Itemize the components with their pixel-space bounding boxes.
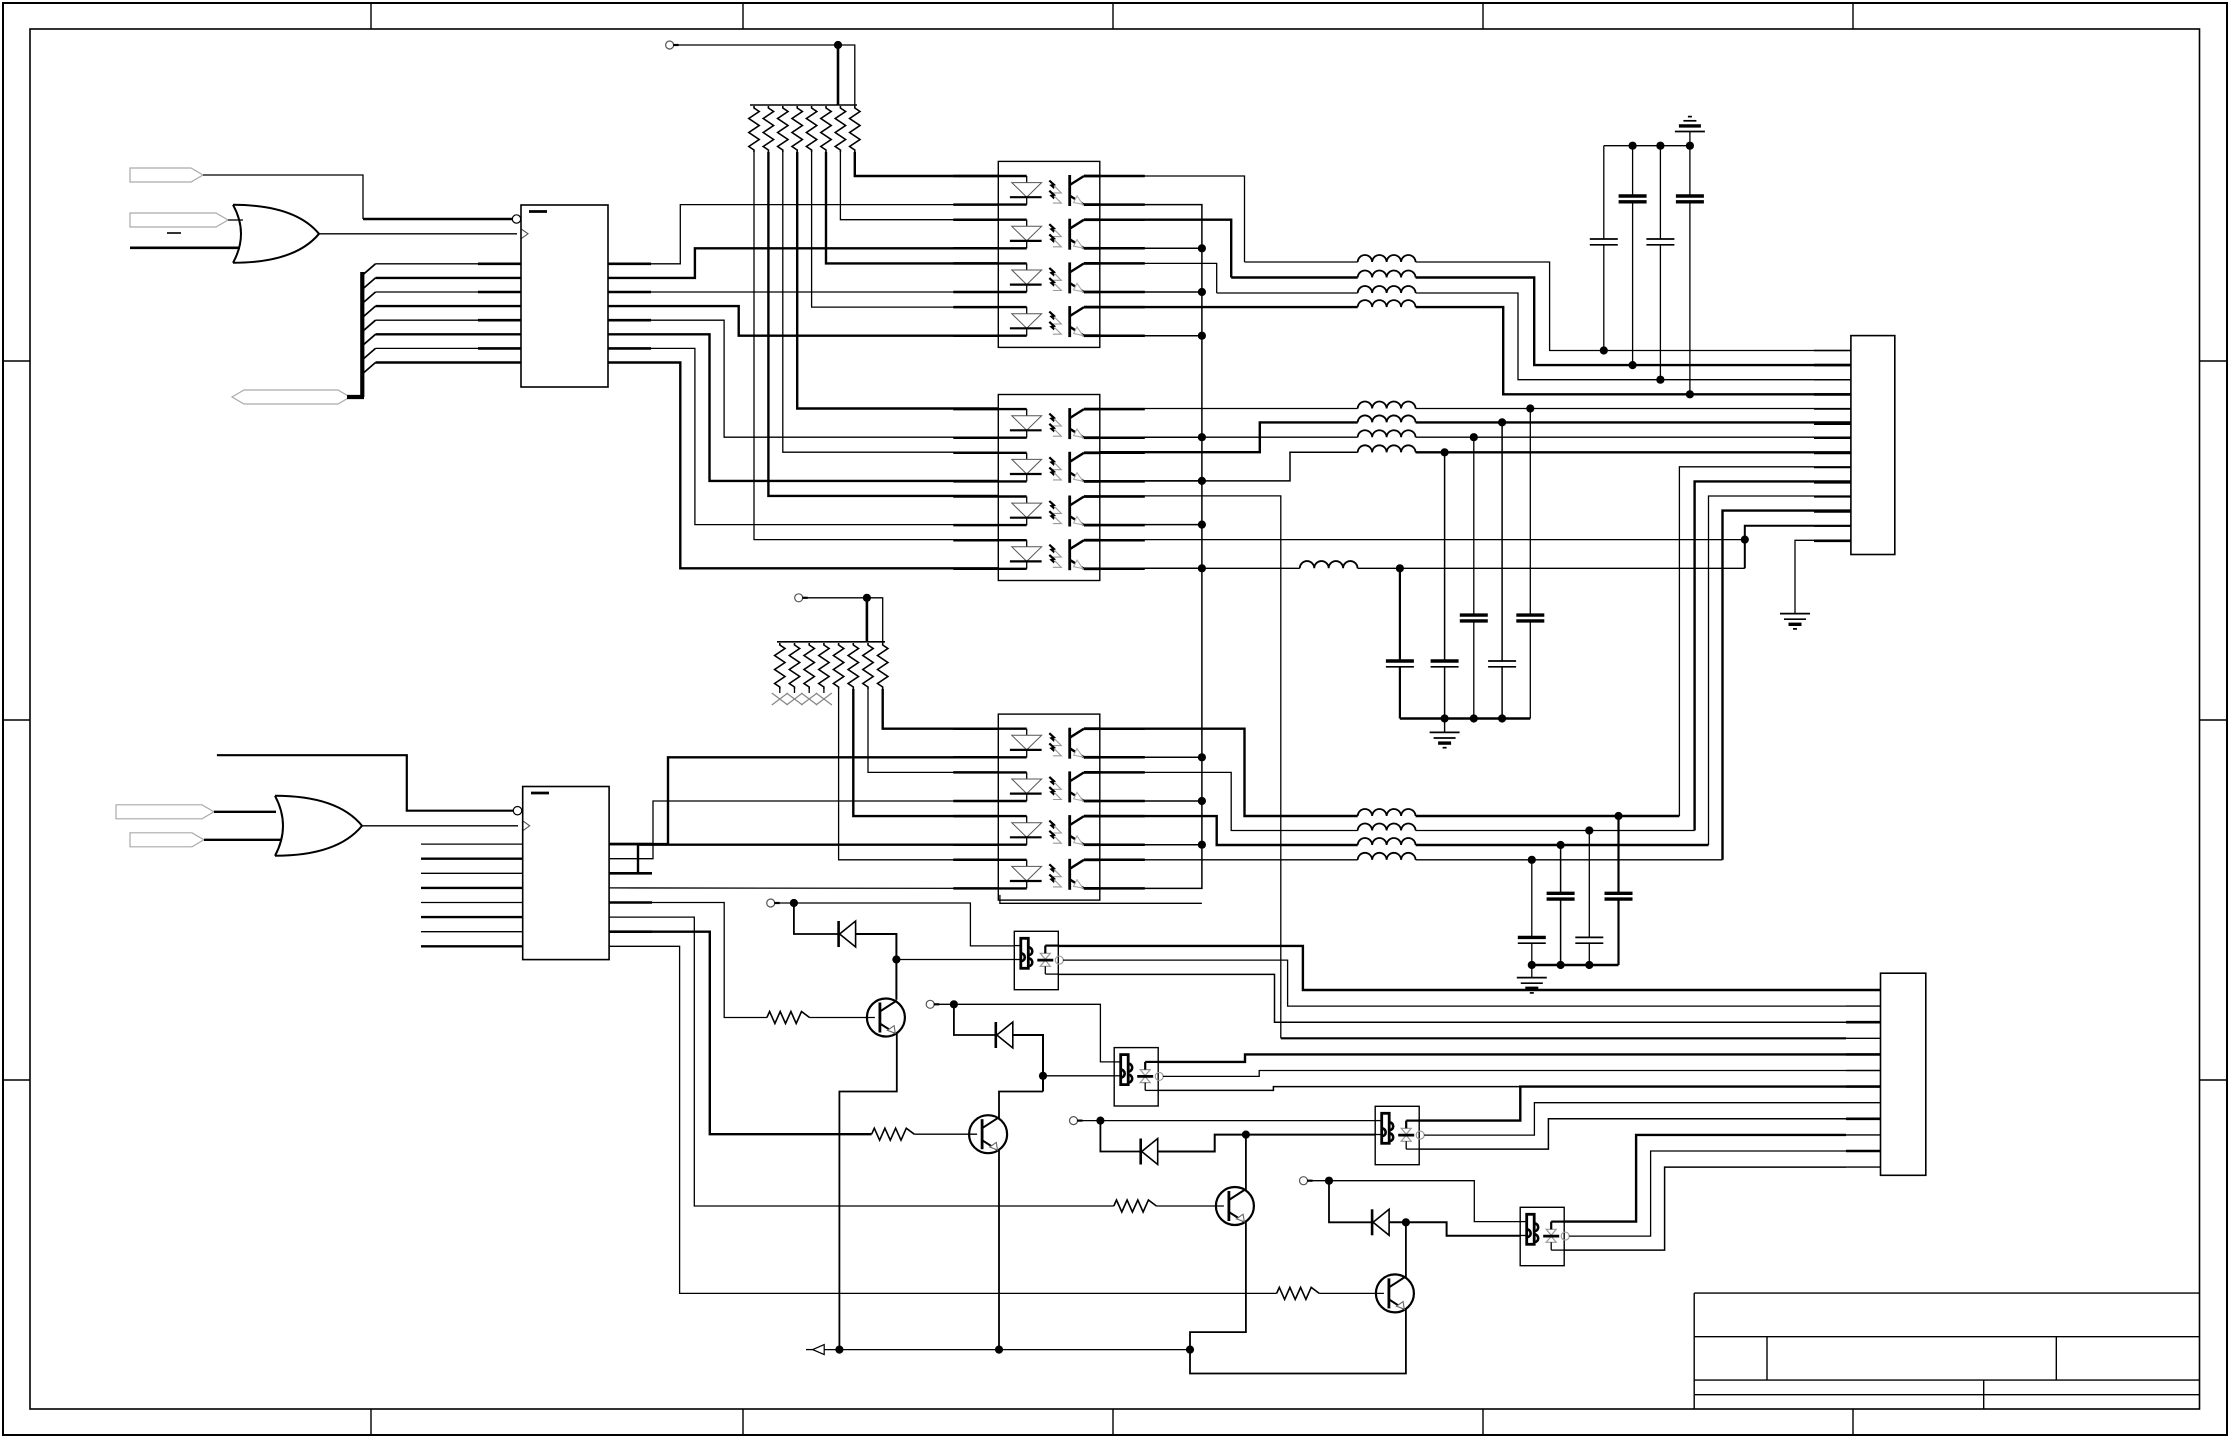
wire R4 to Q2 [914,1133,977,1135]
wire D4 to M4 [1389,1222,1520,1236]
U3 unit3 phototransistor [1068,496,1071,527]
resistor R26 [848,643,858,689]
RN1 common rail [750,104,857,106]
bus tap [363,306,376,317]
junction rail Q1 [835,1346,843,1354]
stub U4 input [421,945,523,947]
wire U3c2 to L6 [1100,422,1358,452]
inductor L13 [1358,853,1416,860]
junction rail Q2 [995,1346,1003,1354]
wire IN3 to OR1 [130,247,240,250]
J2 pin 4 stub [1846,1037,1881,1039]
wire RN1 to opto anode [754,152,998,540]
U2 unit2 LED [998,218,1026,220]
stub U4 input [421,872,523,874]
wire to inductor [1245,261,1358,263]
wire L to J1 [1416,451,1851,453]
wire RN1 to opto anode [783,152,999,452]
border tick right [2200,719,2228,721]
U3 unit4 LED [998,539,1026,541]
wire M4b to J2 pin11 [1569,1151,1846,1236]
wire U2c1 [1100,176,1245,262]
wire RN2 to opto anode [839,689,999,860]
wire U4o8 to R6 base net [609,946,1277,1293]
isolation module M1 [1014,931,1058,989]
border tick bottom [1852,1409,1854,1435]
inductor L6 [1358,415,1416,422]
no-connect X [772,693,788,705]
wire emitter to bus [1100,436,1202,438]
net flag BUS [232,390,350,404]
capacitor C3 [1659,146,1661,239]
resistor R15 [806,106,816,152]
wire bus to U1 pin [376,277,522,279]
border tick right [2200,360,2228,362]
isolation module M4 [1520,1207,1564,1265]
capacitor C5 [1399,568,1401,661]
U3 unit3 pin stubs [953,495,998,498]
J1 pin 2 stub [1814,364,1851,367]
junction N3 [1242,1131,1250,1139]
wire L group3 right [1416,815,1680,817]
junction K4 [1325,1177,1333,1185]
single inductor L9 [1202,567,1300,569]
wire U1 out to opto cathode [608,248,998,278]
J1 pin 7 stub [1814,437,1851,439]
capacitor C8 [1501,422,1503,661]
inductor L4 [1358,300,1416,307]
wire Q3 emitter [1190,1222,1246,1350]
U1 clock mark [521,229,528,239]
wire L9 to J1 pin13 [1745,526,1851,569]
border tick bottom [370,1409,372,1435]
U5 unit2 light arrows [1049,777,1057,787]
capacitor C12 [1588,831,1590,938]
cap rail B [1532,964,1619,967]
border tick left [3,1079,30,1081]
U2 unit3 phototransistor [1068,262,1071,293]
U1 enable bubble [512,215,520,223]
U3 unit2 phototransistor [1068,452,1071,483]
U4 pin stub [609,901,652,904]
junction cap [1557,841,1565,849]
junction cap [1629,361,1637,369]
terminal K4 [1300,1177,1308,1185]
diode D2 [994,1022,997,1048]
wire J1 pin down to L group3 [1709,496,1851,845]
stub U4 input [421,931,523,933]
wire bus to U1 pin [376,361,522,363]
isolation module M2 [1114,1048,1158,1106]
U1 pin stub [478,291,521,294]
wire U1 out to opto cathode [608,348,998,524]
junction VCC2 [863,594,871,602]
cap ground rail [1604,145,1690,147]
wire RN1 to opto anode [840,152,998,220]
junction bus [1198,332,1206,340]
optocoupler block U3 [998,395,1100,581]
wire IN1 to U1 enable [203,175,363,219]
terminal K2 [926,1000,934,1008]
wire L to J1 [1416,293,1851,380]
border tick top [1852,3,1854,29]
U4 pin stub [609,843,652,846]
capacitor C1 [1603,146,1605,239]
cap rail A [1400,717,1530,719]
wire emitter to bus [1100,844,1202,846]
wire VCC2 branch [867,598,883,643]
junction bus [1198,244,1206,252]
junction cap [1600,346,1608,354]
junction rail gnd [1528,961,1536,969]
wire gnd stub [1689,132,1691,146]
wire K4 to M4 [1312,1181,1520,1222]
RN2 common rail [777,641,885,643]
wire U5c4 to L13 [1100,859,1358,861]
wire N2 to Q2 collector [999,1092,1043,1120]
terminal K1 [767,899,775,907]
U2 unit1 light arrows [1049,181,1057,191]
U2 unit4 phototransistor [1068,306,1071,337]
inductor L3 [1358,286,1416,293]
wire emitter to bus [1100,756,1202,758]
input bus [360,272,364,397]
U5 unit3 phototransistor [1068,815,1071,846]
wire M3b to J2 pin8 [1424,1103,1846,1135]
wire to inductor [1100,306,1358,308]
resistor R21 [775,643,785,689]
no-connect X [801,693,817,705]
no-connect X [816,693,832,705]
wire M3a to J2 pin7 [1419,1087,1846,1121]
wire U1 out to opto cathode [608,320,998,437]
wire J1 pin down to L group3 [1679,467,1851,816]
U2 unit1 phototransistor [1068,175,1071,206]
wire L to J1 [1416,262,1851,351]
junction cap [1498,418,1506,426]
border tick left [3,719,30,721]
isolation module M3 [1375,1106,1419,1164]
IC U1 [521,205,608,387]
capacitor C10 [1531,860,1533,938]
bus tap [363,320,376,331]
J1 pin 12 stub [1814,510,1851,513]
junction N4 [1402,1218,1410,1226]
resistor R22 [789,643,799,689]
wire gnd stub [1444,719,1446,733]
J1 pin 10 stub [1814,481,1851,484]
resistor R18 [850,106,860,152]
border tick bottom [1482,1409,1484,1435]
wire L to J1 [1416,421,1851,423]
J1 pin 8 stub [1814,452,1851,455]
wire enable to U4 [217,755,513,811]
U3 unit1 light arrows [1049,414,1057,424]
stub U4 input [421,902,523,904]
wire U5c2 to L11 [1100,772,1358,830]
U1 pin stub [478,347,521,350]
bus tap [363,348,376,359]
wire D3 to M3 [1158,1135,1376,1152]
U2 unit4 LED [998,306,1026,308]
J2 pin 12 stub [1846,1166,1881,1168]
wire Q2 emitter [998,1150,1000,1349]
title block [1694,1292,2199,1294]
wire M1c to J2 pin3 [1058,974,1846,1022]
junction VCC1 [834,41,842,49]
transistor Q1 [867,999,905,1037]
junction bus [1198,477,1206,485]
resistor R11 [749,106,759,152]
wire IN2 to OR1 [228,219,243,221]
junction bus [1198,288,1206,296]
U2 unit1 pin stubs [953,175,998,178]
wire U4o4 to U5 [609,887,998,890]
wire bus to U1 pin [376,319,522,321]
wire N3 to Q3 collector [1245,1135,1247,1191]
ground reference arrow [813,1345,825,1355]
wire K2 to D2 [954,1004,996,1035]
wire VCC2 drop [866,598,869,642]
wire R3 to Q1 [810,1017,875,1019]
wire U3c4 to J1 pin13 net [1100,539,1745,541]
wire J1 pin down to L group3 [1695,481,1851,830]
U2 unit2 pin stubs [953,218,998,221]
wire U4o5 to R3 base net [609,903,767,1018]
U3 unit1 LED [998,408,1026,410]
title block divider [1766,1337,1768,1380]
J1 pin 5 stub [1814,408,1851,410]
wire U2c2 [1100,220,1231,278]
inductor L2 [1358,271,1416,278]
junction cap [1614,812,1622,820]
wire U1 out to opto cathode [608,334,998,481]
transistor Q2 [969,1115,1007,1153]
wire VCC2 [807,597,867,599]
terminal VCC2 [795,594,803,602]
stub U4 input [421,916,523,918]
wire G2 out to U4 clock [362,825,518,827]
wire emitter to bus [1100,800,1202,802]
U3 unit2 pin stubs [953,452,998,455]
J2 pin 11 stub [1846,1150,1881,1153]
capacitor C2 [1632,146,1634,196]
wire G1 output to U1 clock [319,233,517,235]
optocoupler block U5 [998,714,1100,900]
capacitor C13 [1617,816,1619,893]
wire M4c to J2 pin12 [1564,1167,1846,1250]
U5 unit3 pin stubs [953,815,998,818]
wire M1a to J2 pin1 [1058,946,1846,990]
resistor R13 [778,106,788,152]
emitter bus [1100,205,1202,889]
junction K3 [1096,1117,1104,1125]
connector J2 [1881,973,1926,1175]
no-connect X [787,693,803,705]
junction bus [1198,521,1206,529]
U5 unit1 light arrows [1049,733,1057,743]
junction bus [1198,797,1206,805]
U5 unit4 LED [998,859,1026,861]
inductor L12 [1358,838,1416,845]
wire bus to U1 pin [376,305,522,307]
U2 unit1 LED [998,175,1026,177]
J1 pin 4 stub [1814,393,1851,396]
diode D1 [837,921,840,947]
diode D3 [1139,1139,1142,1165]
wire bus to U1 pin [376,347,522,349]
U1 pin stub [608,319,651,322]
resistor R16 [821,106,831,152]
wire IN5 to OR2 [204,839,282,841]
resistor R23 [804,643,814,689]
border tick top [1112,3,1114,29]
inductor L7 [1358,430,1416,437]
U1 pin stub [608,262,651,265]
wire gnd stub [1531,965,1533,978]
junction bus [1198,753,1206,761]
resistor R28 [878,643,888,689]
terminal K3 [1070,1117,1078,1125]
wire to J2 pin4 [1281,1037,1846,1039]
border tick top [1482,3,1484,29]
resistor R3 [767,1012,810,1024]
wire emitter to bus [1100,247,1202,249]
wire N2 to M2 [1043,1075,1114,1077]
wire M2c to J2 pin7 [1158,1087,1846,1091]
wire U4o6 to R5 base net [609,917,1114,1206]
U3 unit4 light arrows [1049,545,1057,555]
wire RN2 to opto anode [868,689,998,772]
transistor Q3 [1216,1187,1254,1225]
J2 pin 1 stub [1846,989,1881,992]
junction N1 [892,955,900,963]
border tick top [742,3,744,29]
U5 unit4 phototransistor [1068,859,1071,890]
wire K2 to M2 [939,1004,1115,1062]
junction K2 [950,1000,958,1008]
U2 unit4 light arrows [1049,312,1057,322]
bus tap [363,278,376,289]
U2 unit3 light arrows [1049,268,1057,278]
border tick bottom [1112,1409,1114,1435]
J2 pin 8 stub [1846,1102,1881,1104]
inductor L1 [1358,255,1416,262]
wire D2 down [1013,1035,1043,1092]
J1 pin 6 stub [1814,422,1851,425]
net flag IN5 [130,833,204,847]
U4 label mark [531,792,549,795]
border tick right [2200,1079,2228,1081]
wire bus to U1 pin [376,263,522,265]
wire bus to L7 [1202,436,1358,438]
optocoupler block U2 [998,161,1100,347]
resistor R14 [792,106,802,152]
wire U3c1 to L5 [1100,408,1358,410]
net flag IN2 [130,213,228,227]
wire RN2 to opto anode [883,689,999,729]
U5 unit1 phototransistor [1068,728,1071,759]
wire J1 pin down to L group3 [1723,511,1851,860]
bus tap [363,264,376,275]
wire U1 out to opto cathode [608,291,998,293]
resistor R5 [1114,1200,1157,1212]
junction bus [1198,841,1206,849]
wire M1b to J2 pin2 [1063,960,1846,1006]
wire U5c3 to L12 [1100,816,1358,845]
junction N2 [1039,1072,1047,1080]
inductor L8 [1358,445,1416,452]
inductor L11 [1358,824,1416,831]
U5 unit4 light arrows [1049,864,1057,874]
U3 unit1 pin stubs [953,408,998,411]
or-gate G2 [275,796,283,856]
wire U2c3 [1100,263,1217,293]
bus tap [363,292,376,303]
U1 pin stub [478,262,521,265]
junction cap [1585,826,1593,834]
wire RN1 to opto anode [812,152,999,307]
wire U5c1 to L10 [1100,729,1358,816]
bus tap [363,334,376,345]
border tick top [370,3,372,29]
U5 unit2 LED [998,771,1026,773]
wire U3c3 down [1100,496,1281,1038]
U2 unit2 phototransistor [1068,219,1071,250]
U1 pin stub [608,347,651,350]
wire M2a to J2 pin5 [1158,1054,1846,1062]
U5 unit2 pin stubs [953,771,998,774]
wire K1 to D1 [794,903,839,934]
wire emitter to bus [1100,567,1202,569]
resistor R4 [872,1128,915,1140]
wire U4o7 to R4 base net [609,932,872,1134]
wire bus to U1 pin [376,333,522,335]
U5 unit4 pin stubs [953,859,998,862]
wire U1 out to opto cathode [608,306,998,336]
U4 enable bubble [513,807,521,815]
net flag IN4 [116,805,214,819]
wire N4 to Q4 collector [1405,1222,1407,1278]
wire VCC1 drop [837,45,840,105]
terminal VCC1 [666,41,674,49]
wire L group3 right [1416,844,1709,846]
wire U3e2 to L8 [1100,452,1358,481]
J2 pin 3 stub [1846,1021,1881,1024]
or-gate G1 [233,205,241,263]
U4 pin stub [609,872,652,875]
J2 pin 7 stub [1846,1085,1881,1088]
junction rail Q3 [1186,1346,1194,1354]
wire Q1 emitter [839,1034,896,1350]
wire VCC1 [678,44,838,46]
capacitor C7 [1473,437,1475,615]
wire RN2 to opto anode [853,689,998,816]
wire Q4 emitter [1190,1309,1406,1373]
IC U4 [523,787,609,960]
stub U4 input [421,887,523,889]
wire U1 out to opto cathode [608,363,998,569]
wire L group3 right [1416,859,1723,861]
J1 pin 1 stub [1814,350,1851,352]
U2 unit3 LED [998,262,1026,264]
wire flag to bus [347,395,364,399]
resistor R24 [819,643,829,689]
junction cap [1686,390,1694,398]
wire R5 to Q3 [1156,1205,1224,1207]
wire U4o2 to U5 [609,801,998,859]
U4 clock mark [523,821,530,831]
